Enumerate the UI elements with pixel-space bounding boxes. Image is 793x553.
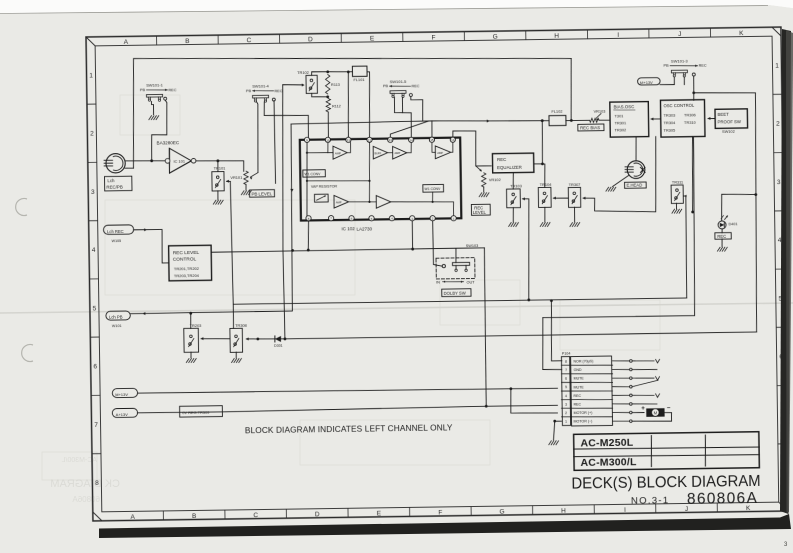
svg-text:IN: IN [436,280,440,284]
svg-text:TR203,TR204: TR203,TR204 [174,273,200,278]
wire dolby drop to A+13V rail [484,248,487,406]
svg-text:4: 4 [92,247,96,254]
drawing frame outer border [86,27,788,521]
svg-text:TR101: TR101 [214,166,226,171]
wire D401 to ground [721,229,723,233]
svg-text:REC: REC [573,394,581,398]
svg-text:SW102: SW102 [722,129,735,134]
amp A5 [376,195,391,208]
IC102 pin 8 [306,216,311,221]
IC102 pin 11 [346,137,351,142]
ground TR311 [672,209,675,213]
block BIAS.OSC [610,102,649,138]
potentiometer VR102 [481,173,486,187]
wire IC pin 3 down [411,221,413,249]
svg-text:SW101-5: SW101-5 [390,79,408,84]
node NOR bus dolby tap [527,298,530,301]
svg-text:4: 4 [565,394,567,398]
wire TR307 to TR104 arrow [553,197,568,199]
svg-text:BEET: BEET [718,112,730,117]
svg-text:11: 11 [347,138,351,142]
wire TR103 bottom to ground [512,208,514,222]
block 0V REG TR309 [180,406,223,417]
SW103 contact circle [442,264,445,267]
wire TR311 to ground [675,203,677,208]
wire W1 CONV right down [431,192,433,202]
svg-text:Lch: Lch [107,178,115,183]
wire TR308 ground [235,352,237,358]
frame zone tick marks [86,27,788,521]
wire into TR101 right with arrow [226,180,230,182]
svg-text:LA2730: LA2730 [356,226,372,231]
wire SW101-4 left post down to VR101 wiper [257,102,259,173]
wire NOR bus [230,175,686,305]
svg-text:H: H [561,508,566,515]
svg-text:DOLBY SW: DOLBY SW [444,291,466,296]
svg-text:W1 CONV: W1 CONV [424,187,441,191]
wire TR102 feed riser from D301 line [281,84,307,338]
svg-text:8: 8 [565,360,567,364]
wire M+13V rail [138,387,558,394]
scan shadow band bottom edge [99,514,791,538]
wire SW101-3 REC contact down [693,76,695,93]
wire TR307 bottom to ground [573,207,575,222]
svg-text:F: F [432,35,436,42]
amp A4 [334,195,349,208]
svg-text:TR306: TR306 [684,112,696,117]
SW103 slide bar [452,262,469,265]
svg-text:AC-M250L: AC-M250L [580,437,633,450]
svg-text:REC: REC [497,157,506,162]
svg-text:LEVEL: LEVEL [473,210,487,215]
IC102 pin 2 [430,216,435,221]
oval Lch REC [103,225,133,235]
svg-text:TR307: TR307 [569,182,581,187]
svg-text:6: 6 [565,377,567,381]
svg-text:TR303: TR303 [664,112,676,117]
svg-text:D401: D401 [729,222,738,226]
svg-text:D: D [308,36,313,43]
node R113 top [326,70,329,73]
svg-text:VAP RESISTOR: VAP RESISTOR [311,185,338,189]
svg-text:K: K [739,30,744,37]
wire IC pin 8 down [308,221,309,250]
svg-text:AMP: AMP [335,151,341,155]
drawing frame inner border [95,36,779,512]
IC102 pin 16 [450,137,455,142]
oval A+13V [112,408,137,417]
svg-text:7: 7 [94,422,98,429]
ground erase head [606,187,609,191]
wire NOR bus drop to P104 row 8 [551,301,562,361]
node junction on head wire [150,159,153,162]
svg-text:NO.3-1: NO.3-1 [631,495,670,507]
svg-text:F: F [438,510,442,517]
svg-text:NOR (70µS): NOR (70µS) [573,359,593,363]
IC102 pin 9 [304,137,309,142]
wiper arrow into VR102 [476,166,481,171]
wire Lch PB line [128,124,294,314]
svg-text:OUT: OUT [467,280,476,284]
svg-text:MOTOR (−): MOTOR (−) [574,419,593,423]
wiper arrow VR101 [250,173,258,178]
paper crease [0,303,793,313]
svg-text:CONTROL: CONTROL [173,256,197,262]
IC102 pin 1 [451,216,456,221]
svg-text:3: 3 [565,403,567,407]
box W1 CONV left [303,170,325,177]
svg-text:EQUALIZER: EQUALIZER [497,165,522,170]
svg-text:2: 2 [776,121,780,128]
oval M+13V top [638,78,661,85]
wire D301 line with arrow into TR308 [246,338,285,339]
filter FL101 [352,66,367,76]
node SW101-3 REC junction [692,91,695,94]
svg-text:IC 102: IC 102 [341,226,355,231]
ground VR102 [479,193,482,197]
svg-text:C: C [253,512,258,519]
wire IC pin16 up to VR102/REC EQ [453,130,491,166]
svg-text:TR201,TR202: TR201,TR202 [174,266,200,271]
svg-text:5: 5 [565,385,567,389]
svg-text:TR103: TR103 [510,183,522,188]
wire SW101-5 REC contact to REC bus [411,96,423,121]
svg-text:AMP: AMP [394,151,400,155]
wire pin 15 to A3 [432,142,436,152]
scan shadow band right edge [780,29,791,514]
svg-text:15: 15 [430,138,434,142]
svg-text:3: 3 [91,189,95,196]
svg-text:E: E [370,35,375,42]
node SW101-4 REC tap [274,120,276,122]
svg-text:MOTOR (+): MOTOR (+) [574,411,593,415]
ground P104 [549,441,552,445]
wire diagonal from IC pin 13 [390,121,429,139]
svg-text:I: I [624,507,626,514]
wire SW101-1 REC contact down to head input [151,100,168,161]
wire TR203 ground [190,352,192,358]
node M rail split [509,387,512,390]
oval Lch PB [106,311,131,320]
VAP resistor box [314,194,328,202]
svg-text:PB: PB [383,84,389,88]
svg-text:R112: R112 [332,104,341,108]
svg-text:REC: REC [573,402,581,406]
svg-text:G: G [493,34,498,41]
svg-text:AMP: AMP [437,151,443,155]
svg-text:REC LEVEL: REC LEVEL [173,250,200,256]
svg-text:OSC CONTROL: OSC CONTROL [664,103,695,108]
wire IC pin 15 up to REC bus [431,121,433,137]
svg-text:+: + [641,405,645,412]
wire TR103 top to REC EQ [512,172,515,189]
svg-text:TR301: TR301 [614,120,626,125]
svg-text:FL102: FL102 [551,109,562,114]
svg-text:60806A: 60806A [72,495,100,504]
wire A4 to A5 [349,200,377,203]
svg-text:W1 CONV: W1 CONV [304,172,321,176]
block REC EQUALIZER [492,153,533,173]
resistor R113 [325,75,330,95]
wire feedback loop top [132,52,573,168]
title table [574,432,760,471]
IC102 pin 4 [389,216,394,221]
svg-text:VR101: VR101 [230,175,242,180]
svg-text:12: 12 [368,138,372,142]
IC102 pin 15 [429,137,434,142]
svg-text:13: 13 [389,138,393,142]
svg-text:8: 8 [95,480,99,487]
svg-text:SW101-3: SW101-3 [671,58,689,63]
wire pin10 stub [327,143,329,153]
node IC pin 3 tap [411,248,414,251]
node top loop junction [570,119,573,122]
node NOR bus row8 [550,299,553,302]
node A rail dolby tap [485,405,488,408]
svg-text:MUTE: MUTE [574,377,585,381]
ground TR103 [509,223,512,227]
svg-text:D: D [315,511,320,518]
svg-text:TR304: TR304 [664,120,677,125]
wire pin12 internal rail [369,143,371,202]
wire SW103 in-post up [455,248,457,262]
wire into TR307 right from bias enable net [582,137,657,213]
wire VR102 to ground [483,187,485,192]
svg-text:G: G [499,509,504,516]
wire A+13V rail [137,405,557,413]
svg-text:A: A [124,39,129,46]
svg-text:4: 4 [778,237,782,244]
wire A3 out to pin 16 [451,142,453,152]
svg-text:T301: T301 [614,113,623,118]
svg-text:TR203: TR203 [190,323,202,328]
svg-text:TR308: TR308 [235,323,247,328]
node right rail D401 tap [754,193,757,196]
svg-text:1: 1 [89,72,93,79]
svg-text:A: A [130,514,135,521]
svg-text:CK DIAGRAM: CK DIAGRAM [50,478,120,490]
box W1 CONV right [423,184,444,192]
svg-text:VR102: VR102 [489,177,501,182]
label PB LEVEL [250,190,275,198]
wire A2 out to pin 14 [407,143,412,153]
block BEET PROOF SW [715,109,748,129]
ground TR104 [540,222,543,226]
svg-text:REC: REC [699,64,707,68]
svg-text:IC 101: IC 101 [173,158,185,163]
label REC (D401) [715,233,731,240]
svg-text:BUFF: BUFF [374,151,381,155]
svg-text:R113: R113 [331,83,340,87]
svg-text:BA3280EC: BA3280EC [156,140,179,145]
IC102 pin 6 [349,216,354,221]
wire A1 input [307,151,333,154]
wire VR103 to BIAS OSC [599,119,610,121]
block REC LEVEL CONTROL [169,245,212,281]
wire VAP rail [307,180,370,182]
wire REC bus to FL102 [291,119,549,124]
wire FL101 out down to IC pin 12 [367,72,370,138]
LED D401 [718,221,726,229]
node D301 left [256,338,259,341]
ground D401 [717,247,720,251]
svg-text:6: 6 [93,364,97,371]
wire P104 pin1 to ground [553,421,561,440]
svg-text:J: J [678,31,681,38]
svg-text:1: 1 [775,62,779,69]
svg-text:P104: P104 [562,352,571,356]
svg-text:REC: REC [274,89,282,93]
block OSC CONTROL [660,100,705,137]
svg-text:D301: D301 [274,344,283,348]
wire SW101-5 posts down to IC pin 14 [394,97,411,138]
label REC BIAS [578,124,604,131]
wire head to op-amp input [125,160,166,161]
svg-text:2: 2 [90,131,94,138]
svg-text:PB: PB [140,88,146,92]
amp A1 [333,146,347,159]
IC102 pin 14 [409,137,414,142]
svg-text:AMP: AMP [336,200,342,204]
wire REC junction to right rail [694,92,759,333]
amp A3 [435,146,451,159]
IC102 internal left rail [306,143,308,216]
wire OSC CONTROL bottom drop to bias net [692,137,694,212]
svg-text:−: − [667,404,671,411]
svg-text:Lch PB: Lch PB [109,315,123,320]
wire TR101 top [217,161,219,172]
svg-text:2: 2 [565,411,567,415]
wire control bus to dolby [212,248,485,252]
svg-text:TR104: TR104 [540,182,553,187]
head Lch REC/PB [106,154,125,173]
node D301 right [284,337,287,340]
IC102 pin 10 [325,137,330,142]
IC102 pin 3 [410,216,415,221]
svg-text:SW103: SW103 [466,244,479,248]
ghost bleed-through artifacts [42,95,660,480]
svg-text:860806A: 860806A [687,490,758,508]
node junction TR101 branch [216,159,219,162]
punch hole left lower [22,345,33,362]
wire BIAS.OSC down to erase head [635,137,638,161]
wire R112 down to IC pin 10 [327,112,330,137]
svg-text:PB LEVEL: PB LEVEL [251,191,272,196]
svg-text:AC-M300/L: AC-M300/L [580,456,637,469]
svg-text:REC: REC [411,84,419,88]
node R113/R112 junction [326,95,329,98]
wire FL102 to VR103 [566,119,590,122]
wire erase head to ground [612,176,628,187]
node TR203 tap on PB line [189,312,192,315]
label E.HEAD [625,182,647,188]
node on bias rail [541,162,544,165]
svg-text:TR305: TR305 [663,127,675,132]
wire top loop down to REC bus [570,58,572,120]
svg-text:TR311: TR311 [672,179,683,184]
wire TR308 to TR203 arrow [201,337,230,340]
svg-text:PB: PB [246,89,252,93]
wire TR308 top to NOR bus [232,304,234,328]
wire op-amp output to VR101 [196,160,244,172]
svg-text:M+13V: M+13V [115,392,128,397]
svg-text:B: B [192,513,196,520]
svg-text:M: M [653,410,657,415]
wire D401 feed from right rail [721,194,756,221]
ground TR308 [232,359,235,363]
svg-text:MUTE: MUTE [574,385,585,389]
svg-text:1: 1 [565,420,567,424]
wire REC junction to OSC CONTROL top [693,93,695,101]
amp A2 [392,146,406,159]
svg-text:14: 14 [410,138,414,142]
wire A5 out to W1 CONV right and pin 1 [391,201,454,217]
label Lch REC/PB [104,176,132,191]
node bias net junction [691,211,694,214]
arrow BEET PROOF into OSC CONTROL [708,117,715,119]
wire D301 line to right rail [285,332,757,339]
wire TR102 bottom to R113 bottom [312,93,328,97]
oval M+13V [112,388,137,397]
IC block IC102 LA2730 [300,138,462,221]
svg-text:I: I [617,32,619,39]
wire Lch REC to REC LEVEL CONTROL [134,229,169,263]
ground TR203 [186,359,189,363]
svg-text:TR302: TR302 [614,127,626,132]
wire TR203 top [190,313,192,328]
svg-text:C: C [247,37,252,44]
wire M+13V to SW101-3 posts [660,77,675,85]
svg-text:GND: GND [573,368,581,372]
svg-text:W105: W105 [111,239,121,243]
svg-text:TR102: TR102 [297,70,309,75]
filter FL102 [549,115,566,125]
arrow OSC CONTROL into BIAS.OSC [651,118,660,120]
wire VR101 to ground [245,185,247,191]
potentiometer VR103 [590,118,600,122]
svg-text:PB: PB [664,64,670,68]
wire IC pin 2 down to SW103 [433,221,442,267]
svg-text:A+13V: A+13V [116,412,129,417]
IC102 pin 13 [388,137,393,142]
IC102 pin 7 [328,216,333,221]
wire REC EQ out to bias rail [534,163,543,165]
punch hole left upper [16,199,27,216]
label DOLBY SW [442,289,471,297]
wire SW101-1 posts to ground [151,101,153,114]
svg-text:10: 10 [326,138,330,142]
wire TR101 to ground [217,191,219,200]
diode D301 [275,336,281,342]
svg-text:REC/PB: REC/PB [106,184,122,189]
resistor R112 [326,99,331,113]
node REC bus split to REC EQ chain [541,119,544,122]
svg-text:VR103: VR103 [594,108,606,113]
frame corner diagonal marks [86,27,788,521]
svg-text:M+13V: M+13V [640,80,653,85]
wire SW101-4 right post down to IC pin 9 [264,101,309,138]
svg-text:16: 16 [451,138,455,142]
ground TR101 [213,200,216,204]
svg-text:PROOF SW: PROOF SW [718,119,742,124]
wire TR102 top bus to FL101 [312,71,353,75]
wire FL101 input down to IC pin 11 [347,72,349,138]
svg-text:5: 5 [93,305,97,312]
ground VR101 [241,191,244,195]
svg-text:H: H [554,33,559,40]
motor M [632,411,644,413]
amp BUFF [373,146,388,159]
